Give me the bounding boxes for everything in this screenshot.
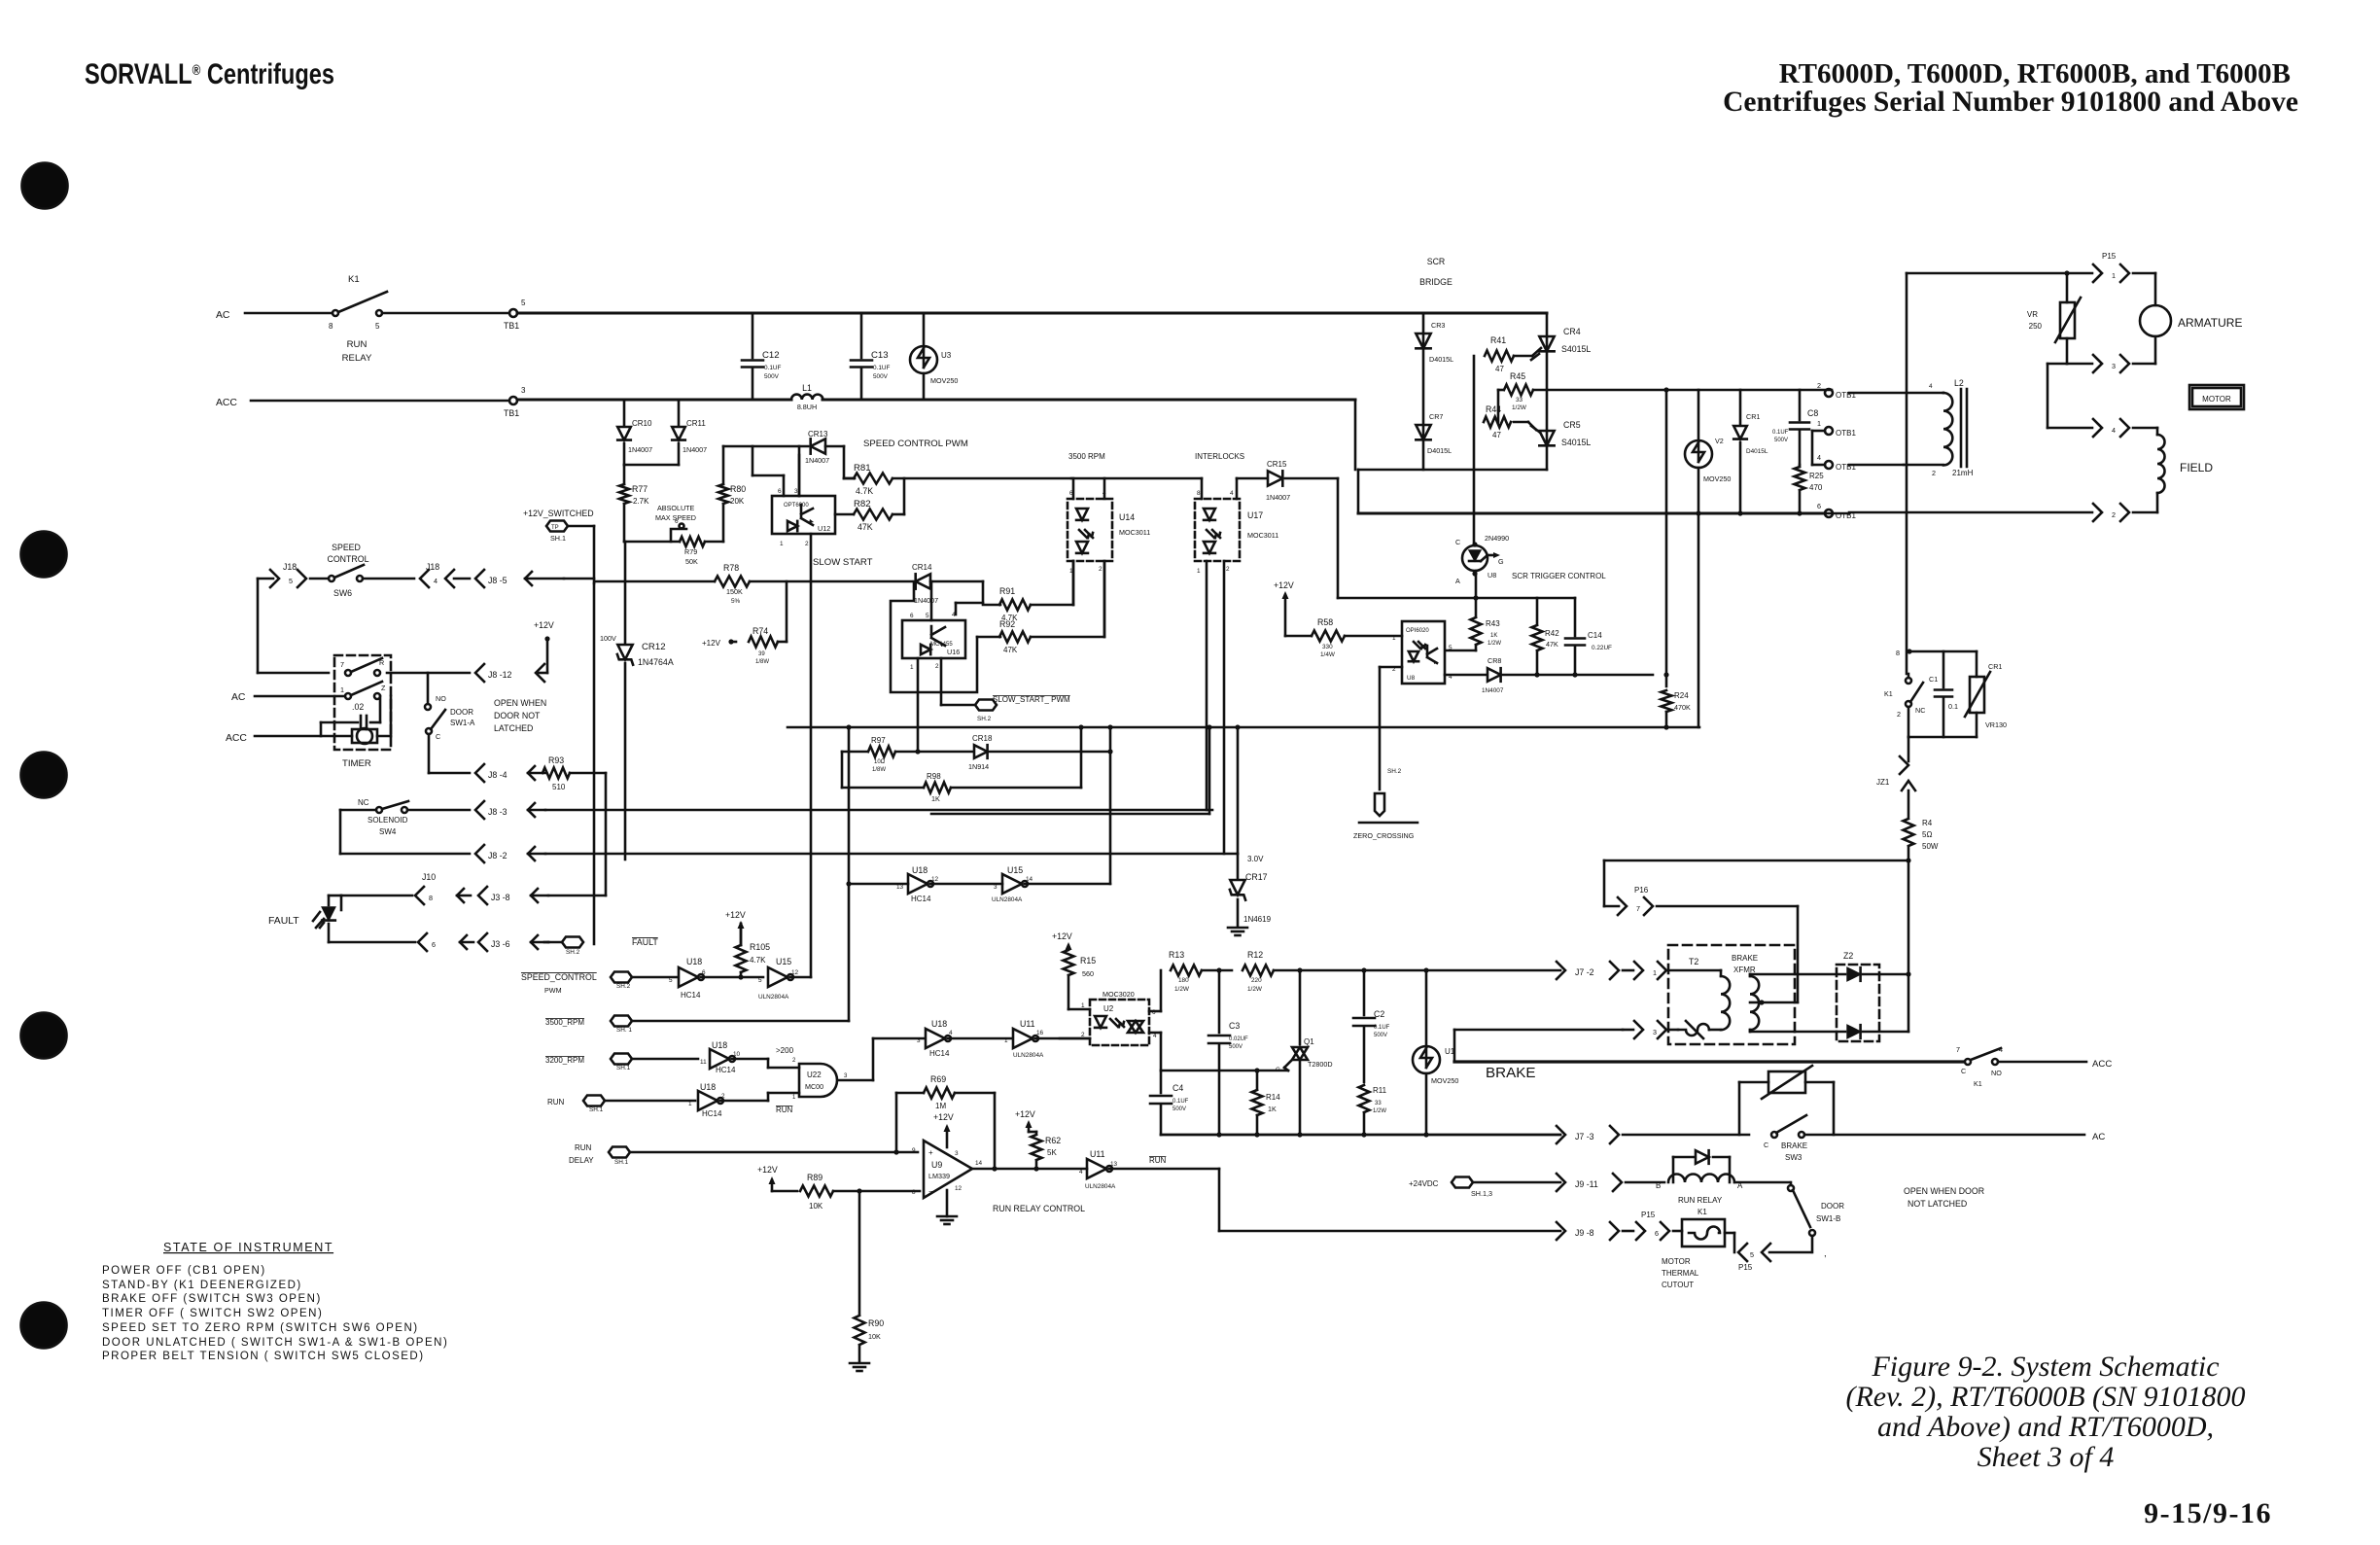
svg-text:JZ1: JZ1 bbox=[1876, 778, 1890, 787]
svg-text:4.7K: 4.7K bbox=[750, 956, 766, 965]
svg-text:7: 7 bbox=[1956, 1045, 1960, 1054]
svg-text:500V: 500V bbox=[1229, 1044, 1242, 1050]
capacitor C1 bbox=[1929, 651, 1958, 737]
svg-text:14: 14 bbox=[975, 1160, 983, 1167]
svg-text:U22: U22 bbox=[807, 1071, 822, 1079]
wire L2 top tap bbox=[1942, 392, 1945, 395]
svg-text:C: C bbox=[1961, 1067, 1966, 1075]
svg-text:4: 4 bbox=[2112, 426, 2116, 435]
capacitor C12 bbox=[742, 313, 781, 400]
power +12V R15 bbox=[1052, 931, 1072, 950]
svg-text:T2800D: T2800D bbox=[1308, 1060, 1333, 1069]
wire R78 row bbox=[596, 580, 912, 583]
wire scr trig rail 615 bbox=[1338, 595, 1575, 600]
svg-text:1K: 1K bbox=[931, 794, 940, 803]
svg-text:CR18: CR18 bbox=[972, 734, 993, 743]
svg-text:FIELD: FIELD bbox=[2180, 461, 2213, 474]
xfmr T2 primary bbox=[1670, 970, 1730, 1030]
svg-text:SH.1: SH.1 bbox=[589, 1106, 604, 1113]
wire P15-4 to field bbox=[2133, 428, 2157, 435]
power +12V above U9 bbox=[933, 1112, 954, 1147]
capacitor C14 bbox=[1565, 598, 1612, 678]
svg-text:3: 3 bbox=[2112, 362, 2116, 370]
svg-text:R81: R81 bbox=[854, 463, 871, 474]
connector P15-6 bbox=[1636, 1211, 1682, 1240]
svg-text:U18: U18 bbox=[700, 1082, 716, 1092]
pot R79 bbox=[624, 518, 723, 566]
wire left loop from SW6 bbox=[258, 579, 329, 673]
label SPEED CONTROL PWM bbox=[863, 439, 968, 449]
connector J18 pin4 pair bbox=[363, 562, 470, 587]
svg-text:Sheet 3 of 4: Sheet 3 of 4 bbox=[1977, 1441, 2115, 1473]
svg-text:R77: R77 bbox=[632, 484, 647, 494]
rail brake bottom bbox=[1161, 1132, 1560, 1137]
wire top armature run bbox=[1907, 272, 2092, 275]
svg-text:6: 6 bbox=[432, 940, 436, 949]
svg-text:FAULT: FAULT bbox=[268, 916, 299, 927]
svg-text:J7 -3: J7 -3 bbox=[1575, 1132, 1594, 1141]
node AC top label bbox=[216, 310, 230, 321]
wire J8-5 to +12Vsw rail bbox=[564, 578, 594, 580]
terminal OTB1-4 bbox=[1817, 453, 1904, 472]
svg-text:RELAY: RELAY bbox=[342, 353, 372, 364]
svg-text:K1: K1 bbox=[348, 274, 360, 285]
svg-text:4: 4 bbox=[434, 577, 437, 585]
thermal cutout T2 bbox=[1678, 1021, 1709, 1038]
svg-text:RUN: RUN bbox=[776, 1106, 793, 1114]
svg-text:CONTROL: CONTROL bbox=[327, 554, 368, 564]
svg-text:C2: C2 bbox=[1374, 1009, 1384, 1019]
label SCR TRIGGER CONTROL bbox=[1512, 572, 1606, 580]
svg-text:R79: R79 bbox=[684, 547, 697, 556]
connector P15-3 bbox=[2067, 355, 2129, 372]
svg-text:S4015L: S4015L bbox=[1561, 344, 1591, 354]
svg-text:SW1-B: SW1-B bbox=[1816, 1214, 1840, 1223]
svg-text:BRIDGE: BRIDGE bbox=[1419, 277, 1452, 287]
flag ZERO_CROSSING bbox=[1353, 768, 1417, 840]
thyristor U8 2N4990 bbox=[1455, 534, 1509, 598]
svg-text:P15: P15 bbox=[2102, 252, 2117, 261]
svg-text:J8 -5: J8 -5 bbox=[488, 576, 507, 585]
xfmr T2 secondary bbox=[1750, 974, 1795, 1032]
svg-text:SH.1: SH.1 bbox=[614, 1159, 629, 1166]
triac Q1 bbox=[1276, 970, 1333, 1135]
svg-text:DOOR UNLATCHED ( SWITCH SW1-A: DOOR UNLATCHED ( SWITCH SW1-A & SW1-B OP… bbox=[102, 1337, 448, 1349]
wire 3500 riser bbox=[846, 727, 851, 1021]
svg-text:and Above) and RT/T6000D,: and Above) and RT/T6000D, bbox=[1877, 1411, 2214, 1443]
svg-text:1/4W: 1/4W bbox=[1320, 651, 1336, 658]
wire U2 pin2 row bbox=[1060, 1037, 1090, 1040]
LED FAULT bbox=[268, 895, 415, 942]
svg-text:RUN: RUN bbox=[575, 1143, 592, 1152]
resistor R42 bbox=[1532, 598, 1560, 678]
svg-text:DELAY: DELAY bbox=[569, 1156, 594, 1165]
svg-text:R44: R44 bbox=[1486, 404, 1501, 414]
svg-text:SPEED SET TO ZERO RPM (SWITCH: SPEED SET TO ZERO RPM (SWITCH SW6 OPEN) bbox=[102, 1322, 419, 1334]
svg-text:CR17: CR17 bbox=[1245, 872, 1268, 882]
svg-text:SPEED_CONTROL: SPEED_CONTROL bbox=[521, 972, 597, 982]
wire U12 pin2 riser bbox=[810, 534, 813, 977]
svg-text:7: 7 bbox=[340, 660, 344, 669]
svg-text:U3: U3 bbox=[941, 351, 952, 360]
wire AC bus top bbox=[517, 312, 1547, 315]
svg-text:13: 13 bbox=[1110, 1161, 1118, 1168]
svg-text:Q1: Q1 bbox=[1304, 1037, 1314, 1046]
svg-text:1N4619: 1N4619 bbox=[1243, 915, 1272, 924]
varistor VR250 bbox=[2027, 270, 2081, 364]
connector J8-4 bbox=[475, 764, 545, 782]
svg-text:ULN2804A: ULN2804A bbox=[992, 896, 1023, 903]
wire U14 pin1 down bbox=[1072, 561, 1075, 605]
svg-text:1N4007: 1N4007 bbox=[628, 445, 652, 454]
flag 3500_RPM bbox=[545, 1016, 849, 1035]
connector J8-12 bbox=[475, 664, 547, 682]
resistor R97 bbox=[842, 736, 921, 773]
svg-text:500V: 500V bbox=[1774, 438, 1788, 443]
svg-text:+12V: +12V bbox=[1274, 580, 1294, 590]
svg-text:SLOW_START_ PWM: SLOW_START_ PWM bbox=[993, 695, 1070, 704]
svg-text:10K: 10K bbox=[868, 1332, 881, 1341]
resistor R43 bbox=[1447, 598, 1501, 650]
svg-text:2: 2 bbox=[935, 663, 939, 670]
svg-text:SCR: SCR bbox=[1427, 257, 1446, 266]
svg-text:CR12: CR12 bbox=[642, 642, 666, 652]
svg-text:FAULT: FAULT bbox=[632, 937, 658, 947]
page number bbox=[2144, 1497, 2272, 1529]
varistor U1 bbox=[1413, 970, 1458, 1135]
wire CR10 CR11 join bbox=[624, 464, 679, 467]
diode Z2b bbox=[1795, 1025, 1908, 1038]
svg-text:R25: R25 bbox=[1809, 472, 1824, 480]
switch DOOR SW1-A bbox=[425, 673, 475, 741]
svg-text:100V: 100V bbox=[600, 634, 616, 643]
svg-text:PWM: PWM bbox=[544, 986, 562, 995]
svg-text:5: 5 bbox=[521, 298, 526, 307]
svg-text:5: 5 bbox=[758, 977, 762, 984]
svg-text:SH. 1: SH. 1 bbox=[616, 1027, 632, 1034]
svg-text:3500_RPM: 3500_RPM bbox=[545, 1018, 584, 1027]
svg-text:MC00: MC00 bbox=[805, 1082, 823, 1091]
label +12V at J8-12 bbox=[534, 620, 554, 673]
svg-text:NC: NC bbox=[1915, 706, 1925, 715]
wire RUNbar to J9-8 bbox=[1219, 1169, 1560, 1231]
svg-text:5: 5 bbox=[375, 322, 380, 331]
svg-text:R105: R105 bbox=[750, 942, 770, 952]
flag SH.2 FAULT bbox=[548, 937, 658, 957]
svg-text:ACC: ACC bbox=[216, 398, 237, 408]
svg-text:39: 39 bbox=[758, 651, 765, 657]
svg-text:CR11: CR11 bbox=[686, 419, 706, 428]
svg-text:6: 6 bbox=[1655, 1229, 1659, 1238]
wire AC to K1 bbox=[245, 312, 332, 315]
svg-text:U17: U17 bbox=[1247, 510, 1263, 520]
svg-text:2N4990: 2N4990 bbox=[1485, 534, 1509, 543]
inverter U11c bbox=[1079, 1149, 1219, 1190]
svg-text:RT6000D, T6000D, RT6000B, and: RT6000D, T6000D, RT6000B, and T6000B bbox=[1779, 58, 2291, 89]
svg-text:R13: R13 bbox=[1169, 950, 1184, 960]
capacitor C3 bbox=[1208, 970, 1248, 1135]
switch DOOR SW1-B bbox=[1788, 1182, 1844, 1236]
svg-text:RUN RELAY CONTROL: RUN RELAY CONTROL bbox=[993, 1204, 1085, 1213]
svg-text:T2: T2 bbox=[1689, 957, 1698, 966]
svg-text:SORVALL® Centrifuges: SORVALL® Centrifuges bbox=[85, 58, 334, 90]
svg-text:+12V: +12V bbox=[757, 1165, 778, 1175]
resistor R89 bbox=[800, 1173, 920, 1211]
flag 3200_RPM bbox=[545, 1054, 698, 1072]
relay contact K1 NC bbox=[1884, 674, 1925, 737]
svg-text:OPEN WHEN DOOR: OPEN WHEN DOOR bbox=[1904, 1186, 1984, 1196]
label RUNbar right bbox=[1149, 1156, 1167, 1165]
svg-text:470: 470 bbox=[1809, 483, 1823, 492]
svg-text:3: 3 bbox=[994, 884, 997, 891]
svg-text:2.7K: 2.7K bbox=[633, 497, 649, 506]
resistor R91 bbox=[983, 561, 1073, 622]
label greater200 bbox=[776, 1046, 794, 1055]
svg-text:OTB1: OTB1 bbox=[1836, 429, 1856, 438]
wire zero crossing drop bbox=[1380, 667, 1402, 790]
svg-text:D4015L: D4015L bbox=[1429, 355, 1453, 364]
svg-text:560: 560 bbox=[1082, 969, 1094, 978]
resistor R13 bbox=[1169, 950, 1232, 993]
svg-text:R: R bbox=[379, 658, 384, 667]
bus y837 bbox=[931, 813, 1209, 816]
svg-text:0.02UF: 0.02UF bbox=[1229, 1036, 1248, 1042]
svg-text:P15: P15 bbox=[1738, 1263, 1753, 1272]
wire riser x1244 bbox=[1208, 727, 1211, 814]
svg-text:U11: U11 bbox=[1090, 1149, 1105, 1159]
terminal OTB1-2 bbox=[1817, 381, 1943, 400]
svg-text:R41: R41 bbox=[1490, 335, 1506, 345]
svg-text:L1: L1 bbox=[802, 383, 812, 393]
svg-text:1: 1 bbox=[910, 664, 914, 671]
svg-text:220: 220 bbox=[1251, 977, 1262, 984]
opto U2 internals bbox=[1095, 1016, 1143, 1033]
wire gate column bbox=[1473, 356, 1476, 544]
svg-text:1N4007: 1N4007 bbox=[682, 445, 707, 454]
svg-text:Z2: Z2 bbox=[1843, 951, 1853, 961]
svg-text:ULN2804A: ULN2804A bbox=[1085, 1183, 1116, 1190]
svg-text:BRAKE: BRAKE bbox=[1486, 1065, 1536, 1081]
connector JZ1 bbox=[1876, 737, 1915, 817]
inverter U18a bbox=[669, 957, 763, 1000]
wire K1 to TB1-5 bbox=[382, 312, 509, 315]
svg-text:J10: J10 bbox=[422, 872, 436, 882]
svg-text:>200: >200 bbox=[776, 1046, 794, 1055]
rail brake mid bbox=[1161, 1070, 1288, 1072]
svg-text:J8 -3: J8 -3 bbox=[488, 807, 507, 817]
svg-text:0.1UF: 0.1UF bbox=[1772, 430, 1789, 436]
svg-text:SPEED CONTROL PWM: SPEED CONTROL PWM bbox=[863, 439, 968, 449]
svg-text:C8: C8 bbox=[1807, 408, 1818, 418]
svg-text:500V: 500V bbox=[764, 373, 780, 380]
switch SOLENOID SW4 bbox=[367, 801, 470, 836]
svg-text:500V: 500V bbox=[1172, 1106, 1186, 1112]
diode CR15 bbox=[1237, 460, 1338, 598]
varistor V2 bbox=[1685, 390, 1731, 727]
diode CR13 bbox=[723, 430, 855, 478]
wire U14 pins top bbox=[1073, 478, 1104, 499]
svg-text:+12V_SWITCHED: +12V_SWITCHED bbox=[523, 509, 594, 518]
svg-text:MOV250: MOV250 bbox=[1703, 474, 1731, 483]
svg-text:47K: 47K bbox=[1546, 640, 1558, 649]
wire U17 pins top bbox=[1202, 478, 1237, 499]
svg-text:4: 4 bbox=[1230, 490, 1234, 497]
svg-text:L2: L2 bbox=[1954, 378, 1964, 388]
svg-text:INTERLOCKS: INTERLOCKS bbox=[1195, 452, 1244, 461]
svg-text:U15: U15 bbox=[1007, 865, 1023, 875]
svg-text:3500 RPM: 3500 RPM bbox=[1068, 452, 1105, 461]
svg-text:1: 1 bbox=[1653, 968, 1657, 977]
svg-text:HC14: HC14 bbox=[716, 1066, 736, 1074]
svg-text:3: 3 bbox=[794, 488, 798, 495]
resistor R92 bbox=[977, 561, 1104, 654]
svg-text:1M: 1M bbox=[935, 1102, 946, 1110]
svg-text:BRAKE OFF (SWITCH SW3 OPEN): BRAKE OFF (SWITCH SW3 OPEN) bbox=[102, 1293, 322, 1305]
svg-text:2: 2 bbox=[1932, 469, 1936, 477]
svg-text:47K: 47K bbox=[1003, 646, 1018, 654]
svg-text:LATCHED: LATCHED bbox=[494, 723, 533, 733]
resistor R93 bbox=[542, 755, 606, 791]
svg-text:ACC: ACC bbox=[2092, 1059, 2112, 1070]
svg-text:R4: R4 bbox=[1922, 819, 1933, 827]
label SLOW START bbox=[813, 557, 873, 568]
motor thermal cutout bbox=[1662, 1219, 1725, 1289]
resistor R41 bbox=[1485, 335, 1541, 373]
opamp U9 bbox=[912, 1141, 983, 1198]
motor armature bbox=[2140, 305, 2242, 336]
svg-text:6: 6 bbox=[1817, 502, 1821, 510]
svg-text:C: C bbox=[1455, 538, 1460, 546]
svg-text:OPT6000: OPT6000 bbox=[784, 503, 809, 509]
timer box bbox=[334, 655, 391, 769]
svg-text:2: 2 bbox=[1226, 566, 1230, 573]
svg-text:33: 33 bbox=[1375, 1101, 1382, 1106]
resistor R24 bbox=[1662, 387, 1691, 727]
svg-text:CR8: CR8 bbox=[1487, 656, 1501, 665]
connector P15-4 bbox=[2093, 419, 2129, 437]
varistor VR130 bbox=[1965, 651, 2007, 737]
connector P15-1 bbox=[2093, 252, 2129, 282]
header right line1 bbox=[1779, 58, 2291, 89]
opto U12 diode bbox=[787, 521, 797, 531]
svg-text:5: 5 bbox=[669, 977, 673, 984]
label ABSOLUTE MAX SPEED bbox=[655, 504, 696, 522]
svg-text:B: B bbox=[1656, 1181, 1661, 1190]
resistor R45 bbox=[1498, 371, 1832, 422]
svg-text:11: 11 bbox=[700, 1059, 707, 1066]
label RUN RELAY CONTROL bbox=[993, 1204, 1085, 1213]
resistor R58 bbox=[1312, 617, 1402, 658]
svg-text:SCR TRIGGER CONTROL: SCR TRIGGER CONTROL bbox=[1512, 572, 1606, 580]
svg-text:NOT LATCHED: NOT LATCHED bbox=[1907, 1199, 1967, 1209]
box MOTOR bbox=[2189, 385, 2244, 409]
svg-text:BRAKE: BRAKE bbox=[1732, 954, 1758, 963]
svg-text:21mH: 21mH bbox=[1952, 469, 1974, 477]
svg-text:J8 -2: J8 -2 bbox=[488, 851, 507, 860]
diode K1 snub bbox=[1673, 1150, 1730, 1182]
svg-text:RUN: RUN bbox=[1149, 1156, 1167, 1165]
svg-text:R24: R24 bbox=[1674, 691, 1689, 700]
label SPEED CONTROL bbox=[327, 543, 368, 564]
svg-text:1: 1 bbox=[1197, 568, 1201, 575]
resistor R105 bbox=[736, 924, 771, 977]
svg-text:5: 5 bbox=[1750, 1250, 1754, 1259]
svg-text:R69: R69 bbox=[930, 1074, 946, 1084]
svg-text:C: C bbox=[1764, 1141, 1768, 1149]
binder hole 5 bbox=[21, 1303, 67, 1349]
svg-text:VR: VR bbox=[2027, 310, 2038, 319]
wire R93 vert bbox=[605, 773, 608, 895]
svg-text:2: 2 bbox=[1817, 381, 1821, 390]
svg-text:P16: P16 bbox=[1634, 886, 1649, 895]
svg-text:−: − bbox=[928, 1187, 933, 1196]
wire fault riser x1142 bbox=[1107, 727, 1112, 884]
wire x1964 brake rect bbox=[1906, 860, 1910, 1032]
svg-text:U18: U18 bbox=[686, 957, 702, 966]
svg-text:4: 4 bbox=[1929, 383, 1933, 390]
svg-text:5: 5 bbox=[926, 613, 929, 619]
svg-text:RUN: RUN bbox=[547, 1098, 565, 1106]
timer motor bbox=[352, 696, 391, 744]
svg-text:MOC3011: MOC3011 bbox=[1119, 528, 1150, 537]
power +12V scr bbox=[1274, 580, 1312, 636]
svg-text:AC: AC bbox=[2092, 1132, 2105, 1142]
motor field coil bbox=[2157, 435, 2213, 493]
opto U12 box bbox=[772, 488, 835, 547]
svg-text:(Rev. 2), RT/T6000B (SN 910180: (Rev. 2), RT/T6000B (SN 9101800 bbox=[1845, 1381, 2245, 1413]
connector J8-3 bbox=[475, 801, 1212, 819]
svg-text:D4015L: D4015L bbox=[1427, 446, 1452, 455]
svg-text:R58: R58 bbox=[1317, 617, 1333, 627]
varistor U3 bbox=[910, 313, 958, 400]
wire U17 pin2 down bbox=[1223, 561, 1226, 854]
svg-text:DOOR: DOOR bbox=[450, 708, 473, 717]
node AC left label bbox=[231, 692, 345, 703]
svg-text:+12V: +12V bbox=[534, 620, 554, 630]
svg-text:470K: 470K bbox=[1674, 703, 1691, 712]
svg-text:SW6: SW6 bbox=[333, 588, 352, 598]
inverter U18c bbox=[688, 1082, 799, 1118]
svg-text:4: 4 bbox=[1079, 1169, 1083, 1176]
flag +24VDC bbox=[1409, 1177, 1560, 1199]
svg-text:1: 1 bbox=[1081, 1002, 1085, 1009]
svg-text:STAND-BY (K1 DEENERGIZED): STAND-BY (K1 DEENERGIZED) bbox=[102, 1280, 302, 1291]
label BRAKE bbox=[1486, 1065, 1536, 1081]
svg-text:1N4007: 1N4007 bbox=[1482, 687, 1504, 694]
svg-text:C4: C4 bbox=[1172, 1083, 1183, 1093]
svg-text:SH.2: SH.2 bbox=[1387, 768, 1402, 775]
svg-text:CR4: CR4 bbox=[1563, 327, 1581, 336]
svg-text:20K: 20K bbox=[730, 497, 745, 506]
wire bridge right vert bbox=[1546, 313, 1549, 470]
wire CR13 pin3 riser bbox=[798, 446, 801, 496]
svg-text:R89: R89 bbox=[807, 1173, 822, 1182]
svg-text:0.1UF: 0.1UF bbox=[873, 365, 890, 371]
diode CR3 bbox=[1416, 321, 1453, 364]
label RUN RELAY bbox=[342, 339, 372, 364]
resistor R98 bbox=[842, 727, 1081, 803]
connector J7-3 bbox=[1557, 1126, 1749, 1143]
svg-text:R93: R93 bbox=[548, 755, 564, 765]
capacitor C4 bbox=[1150, 1071, 1189, 1135]
connector J3-6 bbox=[478, 933, 548, 951]
wire SW3 snubber loop bbox=[1739, 1066, 1834, 1135]
resistor R25 bbox=[1795, 465, 1825, 513]
svg-text:MOC3011: MOC3011 bbox=[1247, 531, 1278, 540]
resistor R14 bbox=[1252, 1068, 1281, 1135]
svg-text:6: 6 bbox=[778, 488, 782, 495]
svg-text:R43: R43 bbox=[1486, 619, 1500, 628]
